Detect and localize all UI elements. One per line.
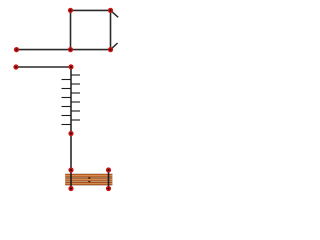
cell 2 negative plate: [62, 88, 72, 90]
cell 3 positive plate: [71, 92, 80, 94]
light gap backing: [65, 174, 112, 185]
cell 1 positive plate: [71, 74, 80, 76]
wire: battery bottom node G down to resistor top node H: [70, 134, 72, 171]
plank 2: [65, 178, 112, 181]
knot on lower gap: [88, 181, 90, 182]
node B dot: [68, 8, 73, 13]
cell 5 negative plate: [62, 115, 72, 117]
node D dot: [108, 47, 113, 52]
node K resistor bottom-right dot: [106, 186, 111, 191]
node J resistor bottom-left dot: [68, 186, 73, 191]
node F battery top dot: [68, 64, 73, 69]
node I resistor top-right dot: [106, 167, 111, 172]
cell 3 negative plate: [62, 97, 72, 99]
node H resistor top-left dot: [68, 167, 73, 172]
battery pack BT1 (6-cell, vertical): [62, 67, 81, 134]
wire: loose diagonal stub at node D: [111, 43, 118, 50]
cell 5 positive plate: [71, 110, 80, 112]
node C dot: [108, 8, 113, 13]
cell 4 positive plate: [71, 101, 80, 103]
junction J1 dot: [68, 47, 73, 52]
wire: second horizontal lead, node E to battery top node F: [16, 66, 71, 68]
plank 3: [65, 182, 112, 185]
wire: loose diagonal stub at node C: [111, 10, 119, 17]
node E terminal dot: [13, 64, 18, 69]
plank 1: [65, 174, 112, 178]
wire: bottom rail of loop, node A to node D: [17, 49, 111, 51]
wire: top rail of loop, node B to node C: [71, 9, 111, 11]
wire: resistor right lead through block: [108, 170, 110, 189]
cell 2 positive plate: [71, 83, 80, 85]
wire: left side of loop, junction J1 up to node B: [70, 10, 72, 49]
wire: resistor left lead through block: [70, 170, 72, 189]
node A terminal dot: [14, 47, 19, 52]
battery axis wire: [70, 67, 72, 134]
wire: right side of loop, node C to node D: [110, 10, 112, 49]
cell 6 positive plate: [71, 119, 80, 121]
knot on upper gap: [88, 178, 90, 179]
cell 1 negative plate: [62, 79, 72, 81]
node G battery bottom dot: [68, 131, 73, 136]
resistor R1 (pictorial wooden plank block): [65, 174, 112, 186]
cell 4 negative plate: [62, 106, 72, 108]
cell 6 negative plate: [62, 124, 72, 126]
